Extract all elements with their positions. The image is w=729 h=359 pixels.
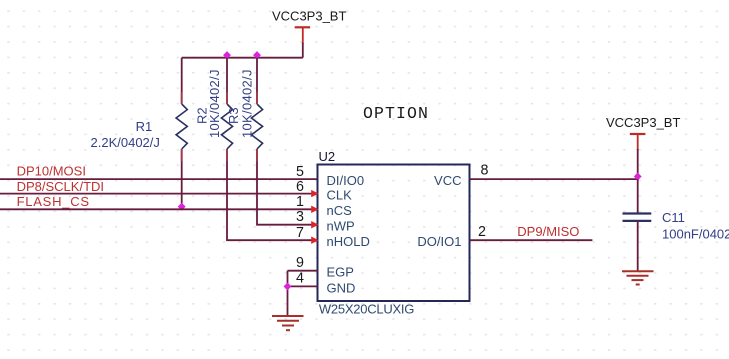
power symbol VCC3P3_BT (top) <box>295 27 310 44</box>
svg-text:R1: R1 <box>136 119 153 134</box>
svg-text:6: 6 <box>296 179 304 195</box>
svg-text:DO/IO1: DO/IO1 <box>417 234 461 249</box>
svg-text:DP10/MOSI: DP10/MOSI <box>17 164 86 179</box>
wire from power symbol down to bus <box>302 43 304 58</box>
wire pin 8 VCC to capacitor junction <box>470 178 638 180</box>
resistor R2 <box>221 104 232 149</box>
wire pin 2 DO/IO1 <box>470 239 593 241</box>
pin 6 input arrowhead <box>311 190 318 197</box>
junction node VCC / C11 <box>634 173 642 181</box>
wire R1 lower lead to FLASH_CS <box>181 149 183 209</box>
svg-text:3: 3 <box>296 209 304 225</box>
capacitor C11 <box>623 214 652 221</box>
power symbol VCC3P3_BT (right) <box>630 134 646 150</box>
wire pin 9 EGP <box>288 270 318 272</box>
wire top horizontal bus y=57.7 <box>182 57 303 59</box>
svg-text:VCC3P3_BT: VCC3P3_BT <box>606 115 680 130</box>
svg-text:OPTION: OPTION <box>363 104 429 123</box>
svg-text:4: 4 <box>296 270 304 286</box>
svg-text:nHOLD: nHOLD <box>327 234 370 249</box>
svg-text:nWP: nWP <box>327 219 355 234</box>
pin 7 input arrowhead <box>311 237 318 244</box>
svg-text:DP9/MISO: DP9/MISO <box>517 224 579 239</box>
resistor R1 <box>176 104 187 149</box>
svg-text:GND: GND <box>327 280 356 295</box>
wire DP10/MOSI to pin 5 <box>0 178 318 180</box>
svg-text:U2: U2 <box>319 149 336 164</box>
wire pin 4 GND <box>288 285 318 287</box>
svg-text:DI/IO0: DI/IO0 <box>327 173 365 188</box>
wire DP8/SCLK/TDI to pin 6 <box>0 193 318 195</box>
svg-text:CLK: CLK <box>327 188 353 203</box>
svg-text:5: 5 <box>296 164 304 180</box>
wire EGP/GND down to ground <box>287 271 289 316</box>
wire FLASH_CS to pin 1 <box>0 208 318 210</box>
junction node R1 / FLASH_CS <box>178 203 186 211</box>
ground symbol at C11 <box>622 271 654 284</box>
svg-text:2.2K/0402/J: 2.2K/0402/J <box>91 135 160 150</box>
svg-text:C11: C11 <box>662 210 685 225</box>
svg-text:10K/0402/J: 10K/0402/J <box>240 69 255 138</box>
wire R2 lower lead down and right to pin 7 <box>227 149 318 240</box>
ground symbol at U2 GND <box>272 316 304 330</box>
wire junction down to C11 <box>637 179 639 213</box>
svg-text:1: 1 <box>296 194 304 210</box>
wire R3 lower lead down and right to pin 3 <box>257 149 318 225</box>
wire R3 upper lead <box>256 58 258 104</box>
svg-text:2: 2 <box>478 224 486 240</box>
svg-text:VCC: VCC <box>434 173 461 188</box>
svg-text:DP8/SCLK/TDI: DP8/SCLK/TDI <box>17 179 104 194</box>
svg-text:VCC3P3_BT: VCC3P3_BT <box>272 9 346 24</box>
wire power down to junction <box>637 149 639 179</box>
op-amp note: IC U2 body <box>318 165 470 302</box>
svg-text:W25X20CLUXIG: W25X20CLUXIG <box>319 302 414 317</box>
wire R1 upper lead <box>181 58 183 104</box>
svg-text:10K/0402/J: 10K/0402/J <box>207 69 222 138</box>
wire C11 down to ground <box>637 221 639 271</box>
svg-text:7: 7 <box>296 225 304 241</box>
junction node at R3 top <box>253 51 261 59</box>
resistor R3 <box>251 104 262 149</box>
svg-text:EGP: EGP <box>327 265 354 280</box>
svg-text:nCS: nCS <box>327 203 353 218</box>
svg-text:FLASH_CS: FLASH_CS <box>17 194 90 209</box>
pin 3 input arrowhead <box>311 221 318 228</box>
wire R2 upper lead <box>226 58 228 104</box>
svg-text:8: 8 <box>481 163 489 179</box>
pin 1 input arrowhead <box>311 206 318 213</box>
resistor pin leads (red tint) <box>181 92 183 104</box>
junction node GND pin 4 <box>284 282 292 290</box>
svg-text:9: 9 <box>296 255 304 271</box>
junction node at R2 top <box>223 51 231 59</box>
svg-text:100nF/0402: 100nF/0402 <box>662 226 729 241</box>
